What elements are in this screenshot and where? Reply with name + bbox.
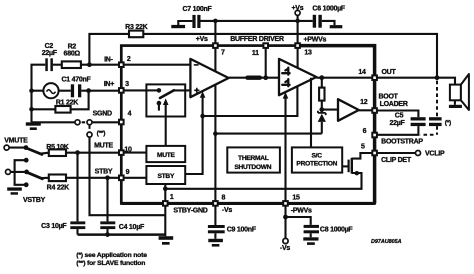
svg-text:+PWVs: +PWVs xyxy=(303,37,326,44)
svg-text:STBY: STBY xyxy=(158,173,175,180)
svg-text:D97AU805A: D97AU805A xyxy=(371,239,402,245)
svg-text:STBY-GND: STBY-GND xyxy=(173,207,207,214)
svg-text:OUT: OUT xyxy=(381,69,396,76)
svg-text:VMUTE: VMUTE xyxy=(4,138,28,145)
svg-text:8: 8 xyxy=(221,194,225,201)
svg-text:R5 10K: R5 10K xyxy=(46,144,68,151)
svg-text:THERMAL: THERMAL xyxy=(238,155,269,162)
svg-text:+Vs: +Vs xyxy=(291,5,303,12)
svg-text:VCLIP: VCLIP xyxy=(425,151,445,158)
svg-text:SHUTDOWN: SHUTDOWN xyxy=(234,164,271,171)
svg-text:SGND: SGND xyxy=(93,111,112,118)
svg-text:(*): (*) xyxy=(445,120,451,127)
svg-text:(**): (**) xyxy=(97,130,106,137)
svg-text:13: 13 xyxy=(304,50,312,57)
svg-text:C9 100nF: C9 100nF xyxy=(227,227,257,234)
svg-text:10: 10 xyxy=(124,147,132,154)
svg-text:22µF: 22µF xyxy=(42,50,58,57)
svg-text:LOADER: LOADER xyxy=(380,101,408,108)
svg-text:3: 3 xyxy=(125,81,129,88)
svg-text:(**) for SLAVE function: (**) for SLAVE function xyxy=(76,260,145,267)
svg-text:-PWVs: -PWVs xyxy=(291,208,312,215)
svg-text:-Vs: -Vs xyxy=(222,207,233,214)
svg-text:R3 22K: R3 22K xyxy=(125,24,147,31)
svg-text:6: 6 xyxy=(363,128,367,135)
svg-text:R4 22K: R4 22K xyxy=(47,184,69,191)
svg-text:VSTBY: VSTBY xyxy=(23,197,46,204)
svg-text:MUTE: MUTE xyxy=(94,143,113,150)
svg-text:S/C: S/C xyxy=(311,152,322,159)
svg-text:PROTECTION: PROTECTION xyxy=(296,161,337,168)
svg-text:2: 2 xyxy=(127,56,131,63)
svg-text:-Vs: -Vs xyxy=(280,245,291,252)
svg-text:C3 10µF: C3 10µF xyxy=(41,223,67,230)
svg-text:BUFFER DRIVER: BUFFER DRIVER xyxy=(230,36,284,43)
svg-text:22µF: 22µF xyxy=(389,120,405,127)
svg-text:(*) see Application note: (*) see Application note xyxy=(76,252,147,259)
svg-text:C7 100nF: C7 100nF xyxy=(182,6,212,13)
svg-text:C1 470nF: C1 470nF xyxy=(61,77,91,84)
svg-text:15: 15 xyxy=(292,194,300,201)
svg-text:R1 22K: R1 22K xyxy=(56,100,78,107)
svg-text:11: 11 xyxy=(252,50,259,57)
svg-text:C8 1000µF: C8 1000µF xyxy=(320,227,353,234)
svg-text:5: 5 xyxy=(361,143,365,150)
svg-text:CLIP DET: CLIP DET xyxy=(381,157,412,164)
svg-text:C6 1000µF: C6 1000µF xyxy=(312,6,345,13)
svg-text:1: 1 xyxy=(170,194,174,201)
svg-text:C2: C2 xyxy=(45,43,54,50)
svg-text:BOOTSTRAP: BOOTSTRAP xyxy=(381,138,423,145)
svg-text:STBY: STBY xyxy=(95,169,113,176)
svg-text:MUTE: MUTE xyxy=(157,152,176,159)
svg-text:12: 12 xyxy=(360,99,368,106)
svg-text:9: 9 xyxy=(126,169,130,176)
svg-text:7: 7 xyxy=(221,50,225,57)
svg-text:BOOT: BOOT xyxy=(378,94,398,101)
svg-text:C5: C5 xyxy=(395,113,404,120)
svg-text:4: 4 xyxy=(128,111,132,118)
svg-text:14: 14 xyxy=(358,69,366,76)
svg-text:C4 10µF: C4 10µF xyxy=(119,224,145,231)
svg-text:IN+: IN+ xyxy=(104,81,115,88)
svg-text:680Ω: 680Ω xyxy=(64,50,81,57)
svg-text:+Vs: +Vs xyxy=(196,36,208,43)
svg-text:IN-: IN- xyxy=(104,57,114,64)
